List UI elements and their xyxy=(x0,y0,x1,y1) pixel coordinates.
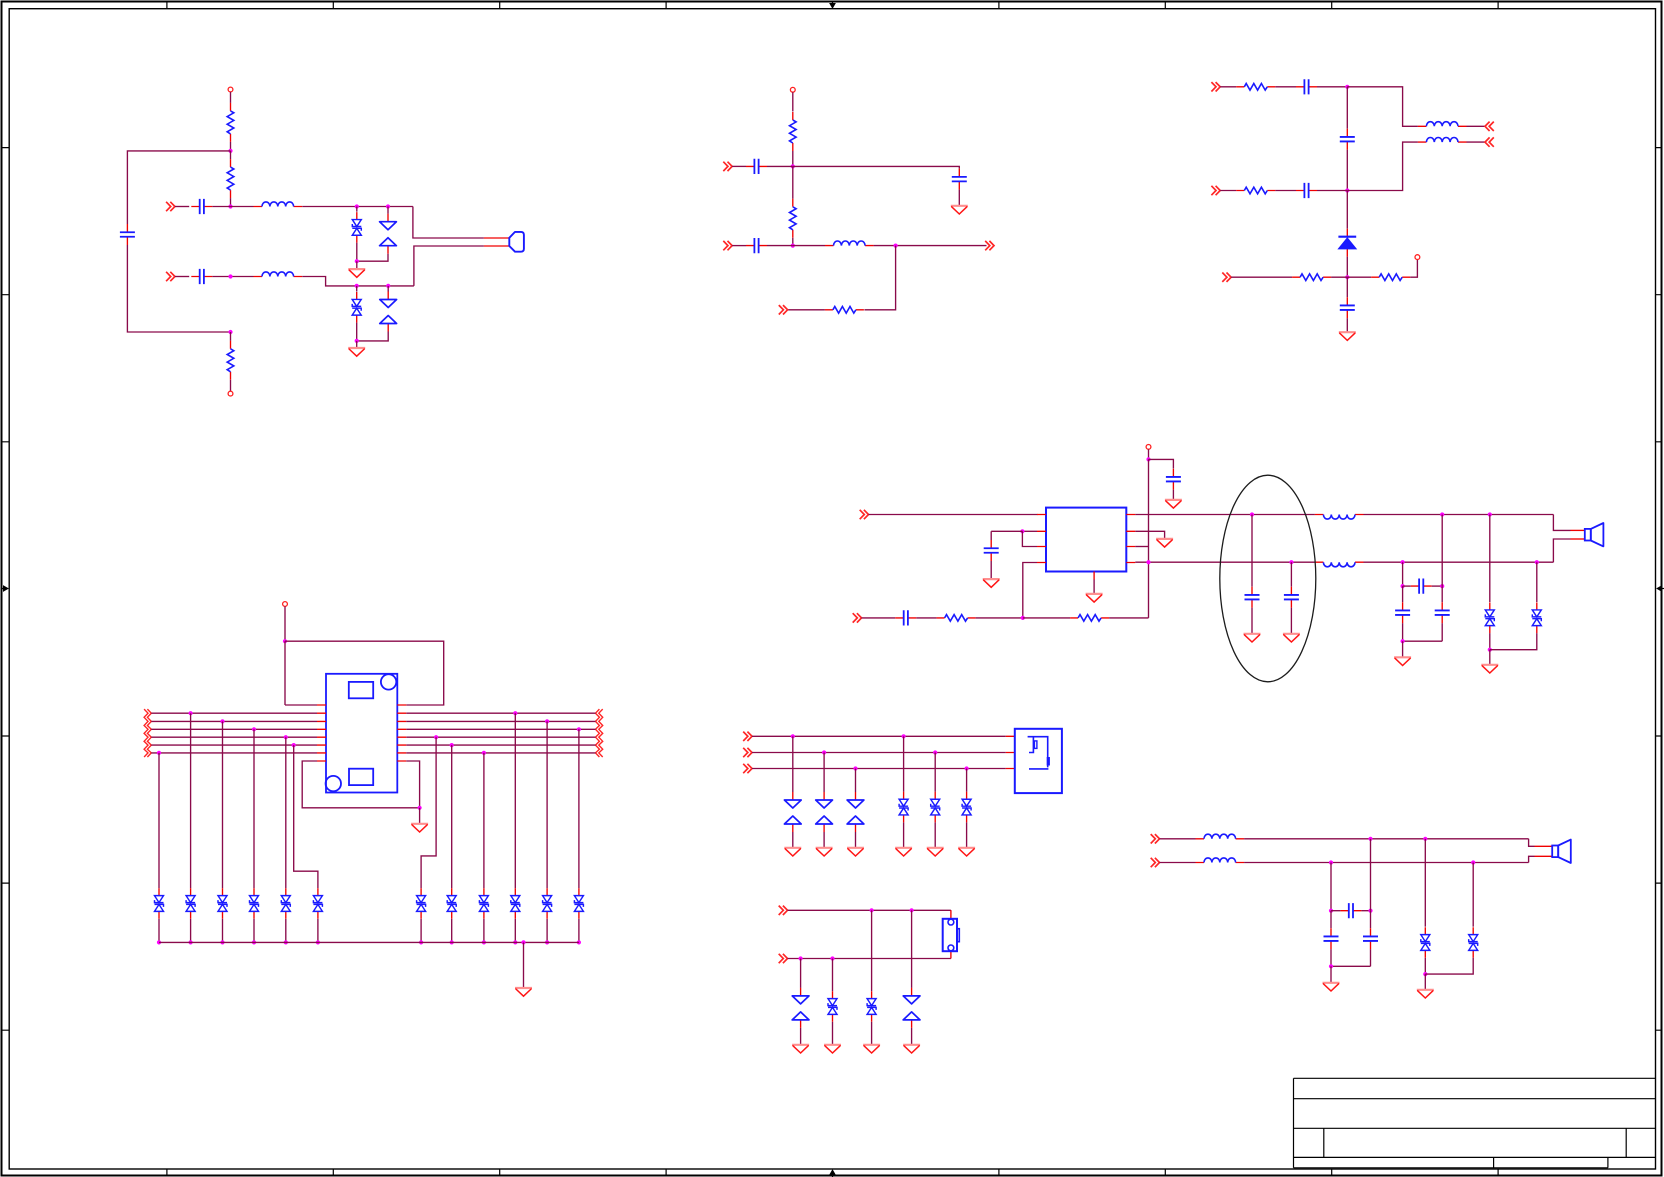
wire xyxy=(916,617,936,619)
wire xyxy=(1472,863,1474,927)
diode pair D2 xyxy=(380,214,397,254)
wire xyxy=(356,243,358,262)
wire bus xyxy=(151,736,317,738)
sheet center marker bottom xyxy=(829,1169,836,1177)
wire xyxy=(212,206,253,208)
wire xyxy=(1275,86,1296,88)
wire xyxy=(793,245,825,247)
terminal P1 pin xyxy=(228,87,233,92)
wire xyxy=(1425,958,1473,974)
junction xyxy=(1423,972,1427,976)
wire bus xyxy=(406,712,595,714)
TVS diode DT1 xyxy=(155,888,164,919)
wire xyxy=(990,561,992,579)
junction xyxy=(419,940,423,944)
wire xyxy=(1490,633,1537,650)
TVS diode DT11 xyxy=(543,888,552,919)
wire xyxy=(1244,838,1529,840)
wire xyxy=(1135,514,1315,516)
port IN1 xyxy=(723,162,732,171)
ground xyxy=(863,1045,880,1053)
wire xyxy=(903,736,905,792)
wire pin red xyxy=(1535,845,1553,847)
capacitor C10 xyxy=(1340,297,1355,318)
wire xyxy=(869,514,1038,516)
wire xyxy=(302,206,413,208)
junction xyxy=(418,806,422,810)
diode pair DB4 xyxy=(903,988,920,1028)
wire xyxy=(1149,459,1174,468)
ground xyxy=(958,848,975,856)
ground xyxy=(895,848,912,856)
port OUT1 xyxy=(985,241,994,250)
port xyxy=(779,954,788,963)
junction xyxy=(1329,860,1333,864)
junction xyxy=(252,940,256,944)
wire rail xyxy=(159,941,579,943)
junction xyxy=(830,956,834,960)
junction xyxy=(482,940,486,944)
inductor L7 xyxy=(1315,562,1364,567)
junction xyxy=(965,766,969,770)
wire xyxy=(871,1022,873,1045)
connector J3 xyxy=(943,919,960,951)
wire xyxy=(1370,949,1372,966)
inductor L5 xyxy=(1418,137,1467,142)
ground xyxy=(1339,332,1356,340)
wire xyxy=(788,309,825,311)
border zone ticks top xyxy=(167,2,1498,9)
wire xyxy=(1275,190,1296,192)
wire xyxy=(546,721,548,888)
TVS diode D6 xyxy=(1485,603,1494,634)
wire xyxy=(285,919,287,943)
junction xyxy=(284,940,288,944)
junction node D xyxy=(228,330,232,334)
inductor L9 xyxy=(1196,858,1245,863)
resistor R4 xyxy=(790,112,797,151)
TVS diode D3 xyxy=(352,292,361,323)
wire xyxy=(302,761,419,808)
inductor L2 xyxy=(254,272,303,277)
junction node G xyxy=(894,244,898,248)
capacitor C17 xyxy=(1395,602,1410,623)
wire xyxy=(222,919,224,943)
wire xyxy=(1135,531,1164,539)
junction node E xyxy=(791,164,795,168)
resistor R10 xyxy=(1371,274,1410,281)
resistor R6 xyxy=(825,307,864,314)
wire xyxy=(1093,580,1095,594)
wire xyxy=(356,323,358,341)
capacitor C8 xyxy=(1340,129,1355,150)
wire xyxy=(414,246,484,286)
wire xyxy=(1330,966,1332,983)
wire xyxy=(1489,515,1491,603)
junction node C xyxy=(228,274,232,278)
capacitor C1 xyxy=(191,199,212,214)
junction xyxy=(1401,584,1405,588)
port INA xyxy=(1211,82,1220,91)
TVS diode DT5 xyxy=(281,888,290,919)
wire xyxy=(514,919,516,943)
junction xyxy=(1021,616,1025,620)
junction node A xyxy=(228,149,232,153)
junction xyxy=(189,940,193,944)
wire xyxy=(1529,839,1535,847)
junction xyxy=(513,711,517,715)
resistor R8 xyxy=(1236,187,1275,194)
wire xyxy=(966,822,968,847)
TVS diode DT12 xyxy=(574,888,583,919)
ground xyxy=(847,848,864,856)
wire xyxy=(1441,586,1443,602)
wire xyxy=(862,617,896,619)
TVS diode DT4 xyxy=(250,888,259,919)
ground xyxy=(348,269,365,277)
wire xyxy=(230,380,232,391)
wire xyxy=(230,142,232,151)
wire xyxy=(406,761,419,808)
wire xyxy=(1536,562,1538,602)
diode pair DA3 xyxy=(847,792,864,832)
wire bus xyxy=(151,728,317,730)
speaker LS3 xyxy=(1552,840,1571,863)
capacitor C2 xyxy=(191,269,212,284)
port SPK2+ xyxy=(1151,834,1160,843)
wire xyxy=(1160,838,1196,840)
wire xyxy=(958,190,960,206)
ground xyxy=(411,824,428,832)
wire xyxy=(934,753,936,792)
port SPK2- xyxy=(1151,858,1160,867)
wire xyxy=(356,207,358,212)
connector J2 pins xyxy=(1006,736,1015,768)
wire xyxy=(175,206,189,208)
wire xyxy=(1403,640,1443,642)
wire xyxy=(420,919,422,943)
capacitor C11 xyxy=(984,540,999,561)
ground xyxy=(348,348,365,356)
TVS diode DA6 xyxy=(962,792,971,823)
junction xyxy=(355,284,359,288)
wire xyxy=(792,238,794,246)
wire xyxy=(788,958,951,960)
port bus left xyxy=(147,709,151,757)
junction xyxy=(1368,837,1372,841)
junction xyxy=(189,711,193,715)
wire pin red xyxy=(1571,538,1585,540)
TVS diode D9 xyxy=(1469,927,1478,958)
capacitor C5 xyxy=(952,169,967,190)
connector J1 pins xyxy=(317,705,406,761)
junction xyxy=(577,940,581,944)
capacitor C14 xyxy=(1245,587,1260,608)
TVS diode DT8 xyxy=(447,888,456,919)
resistor R5 xyxy=(790,199,797,238)
junction xyxy=(870,908,874,912)
wire xyxy=(871,910,873,991)
wire xyxy=(1231,276,1292,278)
junction xyxy=(355,339,359,343)
capacitor C12 xyxy=(1166,469,1181,490)
wire xyxy=(1424,974,1426,990)
wire xyxy=(356,286,358,292)
wire xyxy=(903,822,905,847)
port xyxy=(743,748,752,757)
resistor R1 xyxy=(227,103,234,142)
junction xyxy=(799,956,803,960)
wire xyxy=(357,254,388,262)
wire xyxy=(127,245,230,332)
junction xyxy=(1368,909,1372,913)
junction xyxy=(853,766,857,770)
TVS diode D1 xyxy=(352,212,361,243)
wire xyxy=(1402,562,1404,586)
junction xyxy=(355,204,359,208)
junction node H xyxy=(1345,85,1349,89)
wire xyxy=(1410,260,1417,278)
port xyxy=(779,906,788,915)
wire xyxy=(230,332,232,341)
wire pin red xyxy=(1535,855,1553,857)
wire pin red xyxy=(484,245,509,247)
ground xyxy=(983,579,1000,587)
wire bus xyxy=(406,728,595,730)
wire xyxy=(934,822,936,847)
wire xyxy=(1346,277,1348,297)
junction xyxy=(1488,512,1492,516)
wire xyxy=(285,704,317,706)
wire xyxy=(792,166,794,198)
wire xyxy=(1331,276,1371,278)
port xyxy=(743,764,752,773)
wire xyxy=(1346,257,1348,278)
junction xyxy=(482,751,486,755)
junction xyxy=(902,734,906,738)
ground xyxy=(1283,634,1300,642)
wire xyxy=(1364,514,1554,516)
TVS diode DB3 xyxy=(867,991,876,1022)
wire xyxy=(451,919,453,943)
wire xyxy=(1402,586,1404,602)
wire xyxy=(1346,191,1348,229)
ground xyxy=(1394,657,1411,665)
IC U1 xyxy=(1046,508,1126,572)
resistor R7 xyxy=(1236,84,1275,91)
diode pair DA2 xyxy=(816,792,833,832)
TVS diode DT3 xyxy=(218,888,227,919)
wire xyxy=(1553,515,1570,531)
junction xyxy=(1440,584,1444,588)
wire xyxy=(1220,190,1236,192)
title block xyxy=(1294,1078,1656,1168)
junction xyxy=(284,735,288,739)
resistor R11 xyxy=(937,615,976,622)
junction xyxy=(252,727,256,731)
capacitor C3 xyxy=(120,224,135,245)
port IN_L xyxy=(166,202,175,211)
wire xyxy=(421,737,436,888)
wire xyxy=(317,919,319,943)
wire xyxy=(1346,87,1348,129)
wire xyxy=(1135,561,1315,563)
ground xyxy=(816,848,833,856)
wire xyxy=(1529,856,1535,862)
junction xyxy=(545,940,549,944)
wire xyxy=(767,165,793,167)
TVS diode DA5 xyxy=(931,792,940,823)
wire xyxy=(752,768,1006,770)
terminal P5 pin xyxy=(1146,445,1151,450)
wire xyxy=(855,832,857,848)
wire xyxy=(911,1028,913,1045)
wire xyxy=(1489,650,1491,665)
port xyxy=(743,732,752,741)
wire xyxy=(823,753,825,793)
wire xyxy=(832,1022,834,1045)
TVS diode D7 xyxy=(1532,603,1541,634)
wire xyxy=(732,245,746,247)
wire xyxy=(792,832,794,848)
wire xyxy=(1402,641,1404,657)
terminal P6 pin xyxy=(283,602,288,607)
port OUTA xyxy=(1485,122,1494,131)
junction xyxy=(1535,560,1539,564)
TVS diode DT10 xyxy=(511,888,520,919)
terminal P3 pin xyxy=(790,87,795,92)
wire xyxy=(950,909,952,911)
connector J2 jack xyxy=(1015,729,1062,793)
junction xyxy=(933,750,937,754)
resistor R9 xyxy=(1292,274,1331,281)
junction xyxy=(157,940,161,944)
wire bus xyxy=(406,744,595,746)
wire xyxy=(230,92,232,103)
capacitor C6 xyxy=(746,238,767,253)
wire xyxy=(1022,531,1037,546)
inductor L6 xyxy=(1315,515,1364,520)
junction xyxy=(1289,560,1293,564)
wire xyxy=(158,753,160,888)
wire bus xyxy=(406,720,595,722)
capacitor C20 xyxy=(1324,928,1339,949)
port OUTB xyxy=(1485,137,1494,146)
wire xyxy=(1160,862,1196,864)
wire xyxy=(413,207,484,239)
wire xyxy=(991,530,1022,532)
wire xyxy=(911,910,913,988)
junction xyxy=(577,727,581,731)
junction xyxy=(1250,512,1254,516)
junction node L xyxy=(283,639,287,643)
wire xyxy=(800,1028,802,1045)
capacitor C9 xyxy=(1296,183,1317,198)
wire xyxy=(792,736,794,792)
capacitor C16 xyxy=(1411,579,1432,594)
wire xyxy=(752,752,1006,754)
wire xyxy=(1331,910,1340,912)
wire xyxy=(1023,617,1070,619)
port SPK_IN+ xyxy=(860,510,869,519)
wire xyxy=(285,641,444,705)
terminal P4 pin xyxy=(1415,255,1420,260)
wire xyxy=(1317,190,1347,192)
junction xyxy=(316,940,320,944)
capacitor C18 xyxy=(1435,602,1450,623)
wire xyxy=(832,959,834,992)
TVS diode DT2 xyxy=(186,888,195,919)
resistor R3 xyxy=(227,341,234,380)
wire pin red xyxy=(1571,529,1585,531)
junction xyxy=(292,743,296,747)
IC U1 pin bottom xyxy=(1093,572,1095,580)
diode pair DB1 xyxy=(792,988,809,1028)
wire bus xyxy=(406,736,595,738)
wire xyxy=(1489,633,1491,650)
wire xyxy=(1361,910,1370,912)
wire xyxy=(1370,911,1372,929)
wire xyxy=(222,721,224,888)
wire xyxy=(1330,949,1332,966)
wire xyxy=(752,735,1006,737)
wire xyxy=(864,246,895,310)
wire xyxy=(976,617,1023,619)
wire xyxy=(1290,608,1292,634)
capacitor C7 xyxy=(1296,79,1317,94)
wire xyxy=(792,92,794,111)
sheet center marker right xyxy=(1656,585,1664,592)
terminal P2 pin xyxy=(228,391,233,396)
wire xyxy=(1403,585,1411,587)
junction xyxy=(521,940,525,944)
junction xyxy=(1146,560,1150,564)
wire xyxy=(1220,86,1236,88)
wire xyxy=(284,606,286,641)
wire xyxy=(788,909,951,911)
wire xyxy=(158,919,160,943)
annotation ellipse xyxy=(1220,475,1316,682)
wire xyxy=(732,165,746,167)
TVS diode DB2 xyxy=(828,991,837,1022)
junction node I xyxy=(1345,188,1349,192)
speaker LS2 xyxy=(1585,523,1604,546)
wire xyxy=(1424,958,1426,974)
junction xyxy=(386,284,390,288)
wire xyxy=(990,531,992,540)
wire xyxy=(483,753,485,888)
junction xyxy=(1401,639,1405,643)
wire xyxy=(127,151,230,224)
wire xyxy=(1347,87,1418,127)
diode pair DA1 xyxy=(784,792,801,832)
junction xyxy=(1440,512,1444,516)
wire xyxy=(1135,546,1148,548)
wire xyxy=(1317,86,1347,88)
wire xyxy=(285,737,287,888)
wire xyxy=(1148,459,1150,618)
TVS diode DT9 xyxy=(479,888,488,919)
ground xyxy=(515,988,532,996)
wire xyxy=(1330,911,1332,929)
junction xyxy=(1329,964,1333,968)
TVS diode D8 xyxy=(1421,927,1430,958)
wire xyxy=(767,245,793,247)
ground xyxy=(903,1045,920,1053)
wire xyxy=(294,745,318,888)
wire xyxy=(1441,515,1443,587)
ground xyxy=(784,848,801,856)
